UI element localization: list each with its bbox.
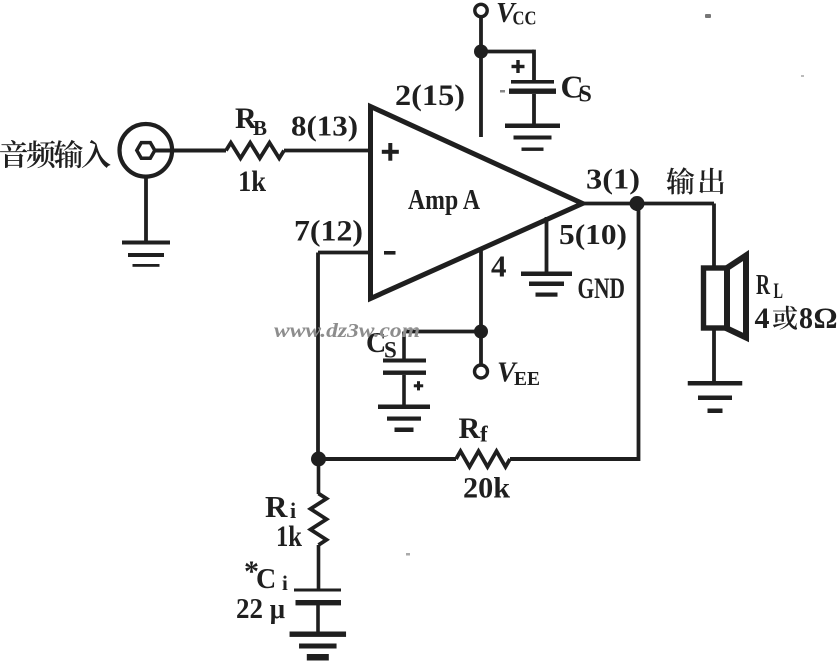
label 音频输入 (audio input)	[0, 140, 110, 168]
svg-text:R: R	[756, 269, 771, 301]
capacitor CS1 plus marker	[512, 60, 525, 73]
ground (CS2)	[378, 405, 430, 410]
ground (speaker)	[688, 381, 743, 386]
op-amp - input marker	[384, 251, 396, 255]
svg-text:i: i	[282, 571, 288, 595]
svg-text:EE: EE	[514, 368, 540, 390]
label *Ci	[244, 555, 288, 595]
wire VEE node to CS2	[404, 330, 481, 334]
svg-text:R: R	[459, 412, 481, 445]
speck	[406, 553, 410, 556]
svg-text:C: C	[256, 564, 276, 595]
label VCC	[496, 0, 537, 30]
op-amp + input marker	[382, 143, 399, 161]
wire output down to speaker	[712, 204, 716, 269]
label VEE	[497, 358, 540, 391]
wire connector down to ground	[144, 176, 148, 242]
wire VCC node to CS1	[481, 50, 534, 54]
input connector J1 outer circle	[120, 124, 173, 177]
input connector J1 inner pin	[137, 143, 155, 159]
svg-text:8(13): 8(13)	[291, 112, 358, 143]
svg-text:4: 4	[755, 302, 770, 335]
svg-text:L: L	[774, 278, 784, 303]
svg-text:22 μ: 22 μ	[236, 594, 285, 625]
wire down to CS2 plates	[402, 332, 406, 359]
wire op-amp - input (pin7)	[318, 251, 372, 255]
svg-text:GND: GND	[578, 272, 626, 305]
svg-text:1k: 1k	[238, 165, 266, 198]
speck	[500, 90, 505, 93]
svg-text:1k: 1k	[276, 520, 302, 553]
wire pin 5 to ground	[545, 217, 549, 272]
svg-text:8: 8	[799, 300, 813, 335]
label Rf	[459, 412, 489, 447]
svg-text:Amp A: Amp A	[408, 184, 480, 216]
svg-text:7(12): 7(12)	[294, 215, 363, 248]
label 4或8Ω	[755, 300, 838, 335]
capacitor Ci plates	[294, 589, 341, 606]
svg-text:www.dz3w.com: www.dz3w.com	[274, 320, 420, 342]
svg-text:f: f	[480, 422, 488, 447]
speaker RL cone	[727, 256, 746, 338]
speaker RL body	[704, 268, 728, 328]
junction dot VCC node	[474, 45, 488, 59]
VCC terminal circle	[475, 4, 487, 16]
svg-text:CC: CC	[513, 8, 537, 30]
wire pin 4 down	[479, 249, 483, 332]
svg-text:S: S	[579, 82, 592, 108]
wire speaker to ground	[712, 330, 716, 382]
ground (input connector)	[122, 241, 170, 245]
resistor Rf zigzag	[456, 451, 510, 467]
op-amp U1 Amp A triangle	[371, 107, 583, 299]
svg-text:3(1): 3(1)	[586, 164, 640, 196]
wire Rf to output node	[510, 457, 639, 461]
wire RB to op-amp + input	[284, 149, 372, 153]
wire CS1 to ground	[532, 94, 536, 124]
label 输出 (output)	[666, 167, 723, 194]
junction dot output node	[630, 196, 645, 211]
svg-text:5(10): 5(10)	[559, 219, 627, 251]
capacitor CS2 plus marker	[414, 381, 423, 390]
wire CS2 to ground	[402, 375, 406, 405]
wire connector to RB	[155, 149, 226, 153]
svg-text:2(15): 2(15)	[395, 79, 465, 112]
label CS (top)	[561, 69, 592, 108]
junction dot VEE node	[474, 325, 488, 339]
speck	[705, 14, 711, 18]
wire node to Ri	[317, 459, 321, 494]
resistor RB zigzag	[226, 143, 284, 159]
label Ri	[265, 489, 296, 524]
wire VCC down into op-amp	[479, 17, 483, 137]
ground (CS1)	[505, 124, 560, 129]
resistor Ri zigzag	[311, 494, 327, 546]
label RB	[235, 102, 267, 140]
svg-text:20k: 20k	[463, 472, 510, 505]
wire pin7 node down (feedback left)	[316, 253, 320, 460]
label RL	[756, 269, 783, 303]
capacitor CS2 plates	[383, 359, 426, 375]
svg-text:Ω: Ω	[814, 302, 838, 335]
wire VEE node down to terminal	[479, 332, 483, 366]
label CS (bottom)	[366, 328, 397, 363]
svg-text:4: 4	[491, 249, 507, 284]
junction dot feedback node	[311, 452, 326, 467]
VEE terminal circle	[475, 365, 488, 378]
ground (Ci)	[290, 632, 347, 637]
ground (pin 5)	[521, 272, 572, 277]
svg-text:R: R	[265, 489, 288, 524]
wire Ci to ground	[316, 605, 320, 632]
speck	[801, 75, 804, 77]
svg-text:B: B	[253, 116, 267, 140]
capacitor CS1 plates	[509, 80, 556, 94]
wire op-amp output	[583, 202, 715, 206]
wire Ri to Ci	[317, 545, 321, 589]
wire node to Rf	[319, 457, 457, 461]
